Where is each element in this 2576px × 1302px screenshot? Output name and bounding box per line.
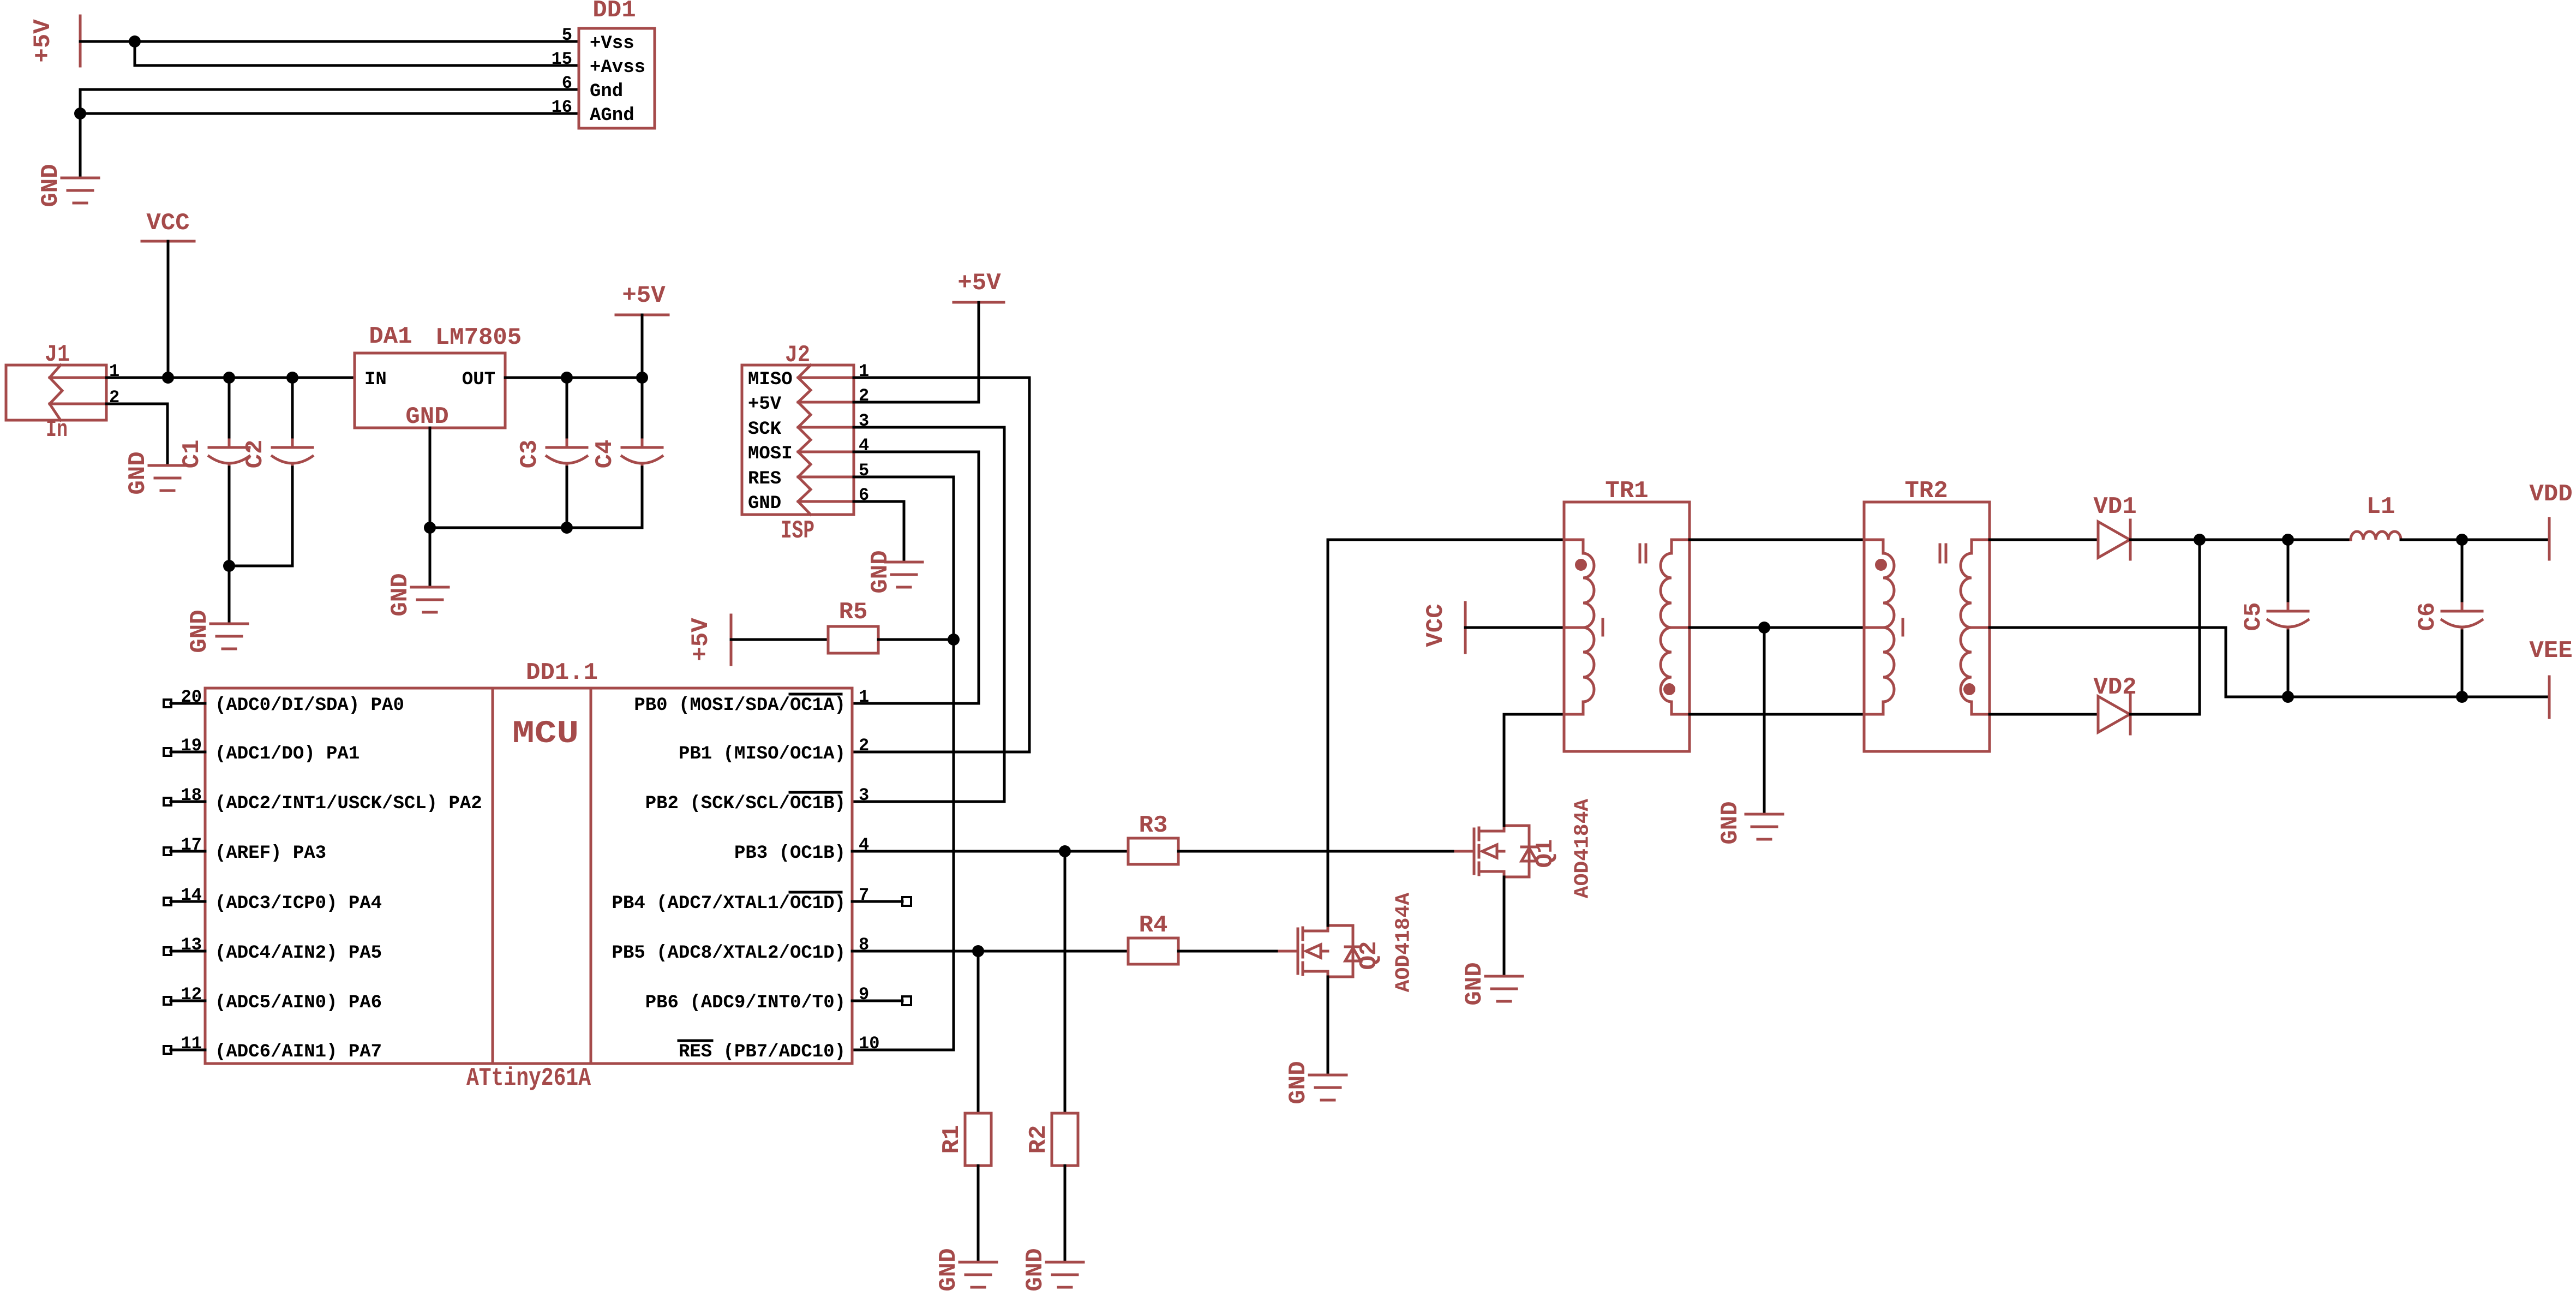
svg-text:R5: R5 — [839, 599, 868, 626]
pin names right — [612, 694, 846, 1062]
svg-text:14: 14 — [181, 885, 202, 905]
svg-text:DA1: DA1 — [369, 323, 412, 350]
IC DD1 power block — [552, 0, 655, 128]
wire PB3 net — [852, 850, 1128, 853]
transformer TR1 — [1564, 477, 1690, 751]
svg-text:16: 16 — [552, 97, 572, 117]
node RES/R5 junction — [948, 634, 960, 646]
svg-text:Q1: Q1 — [1532, 839, 1559, 868]
wire C1 to ground — [228, 566, 231, 624]
resistor R3 — [1128, 812, 1178, 864]
ground GND (Q2) — [1285, 1061, 1346, 1104]
wire DA1 OUT row — [505, 377, 642, 379]
connector J2 ISP — [742, 342, 869, 545]
capacitor C2 — [242, 378, 313, 566]
wire Q2 drain up — [1328, 540, 1564, 925]
node DA1 gnd junction — [424, 522, 436, 534]
svg-text:GND: GND — [37, 164, 64, 207]
svg-text:+5V: +5V — [29, 19, 57, 63]
wire TR2 mid to VEE row — [1990, 628, 2549, 697]
wire DD1 pin 16 — [80, 112, 579, 115]
wire MOSI net — [852, 452, 979, 703]
power VCC (input) — [142, 210, 194, 241]
wire VCC stub — [167, 241, 170, 378]
node Gnd/AGnd junction — [74, 107, 86, 120]
svg-text:(ADC4/AIN2) PA5: (ADC4/AIN2) PA5 — [215, 943, 382, 964]
pin numbers right — [859, 687, 879, 1054]
svg-text:TR2: TR2 — [1904, 477, 1948, 505]
svg-text:J2: J2 — [785, 342, 810, 369]
svg-text:RES: RES — [748, 469, 781, 489]
wire L1 to VDD — [2401, 539, 2549, 541]
node C3 top junction — [561, 372, 573, 384]
svg-text:C6: C6 — [2414, 602, 2441, 631]
svg-text:GND: GND — [387, 573, 414, 616]
svg-text:17: 17 — [181, 835, 202, 855]
svg-text:(ADC0/DI/SDA) PA0: (ADC0/DI/SDA) PA0 — [215, 695, 404, 716]
node C6 top junction — [2456, 534, 2468, 546]
svg-text:MOSI: MOSI — [748, 444, 793, 464]
node C6 bottom junction — [2456, 691, 2468, 703]
svg-text:PB3 (OC1B): PB3 (OC1B) — [734, 843, 846, 864]
IC DD1.1 MCU ATtiny261A — [205, 659, 852, 1092]
inductor L1 — [2351, 493, 2401, 540]
wire R5 to RES net — [878, 638, 954, 641]
svg-text:GND: GND — [748, 493, 781, 514]
node C1 bottom junction — [223, 560, 235, 572]
svg-text:C2: C2 — [242, 440, 269, 469]
pin numbers left — [181, 687, 202, 1054]
svg-text:(ADC3/ICP0) PA4: (ADC3/ICP0) PA4 — [215, 893, 382, 914]
svg-text:(ADC5/AIN0) PA6: (ADC5/AIN0) PA6 — [215, 993, 382, 1013]
svg-text:RES (PB7/ADC10): RES (PB7/ADC10) — [679, 1042, 846, 1062]
wire mid to ground — [1763, 628, 1766, 814]
svg-text:J1: J1 — [45, 341, 70, 368]
pin PA1 stub — [164, 748, 205, 756]
node C5 top junction — [2282, 534, 2294, 546]
svg-text:VCC: VCC — [146, 210, 189, 237]
wire R1 top — [977, 951, 980, 1113]
svg-text:R4: R4 — [1139, 912, 1168, 939]
wire R1 bottom — [977, 1166, 980, 1262]
power +5V (DD1 supply) — [29, 16, 80, 66]
pin PA2 stub — [164, 798, 205, 805]
svg-text:PB0 (MOSI/SDA/OC1A): PB0 (MOSI/SDA/OC1A) — [634, 695, 846, 716]
wire DD1 pin 6 — [80, 89, 579, 178]
wire R3 to Q1 gate — [1178, 850, 1455, 853]
wire J2.6 to ground — [854, 501, 904, 562]
capacitor C1 — [178, 378, 249, 566]
wire Q1 source down — [1503, 877, 1506, 976]
resistor R5 — [828, 599, 878, 653]
svg-text:PB1 (MISO/OC1A): PB1 (MISO/OC1A) — [679, 744, 846, 765]
svg-text:19: 19 — [181, 736, 202, 756]
pin PB4 stub — [852, 897, 911, 906]
svg-text:GND: GND — [186, 610, 213, 653]
wire VD2 up — [2198, 540, 2201, 714]
svg-text:ATtiny261A: ATtiny261A — [466, 1064, 591, 1092]
svg-text:VEE: VEE — [2529, 637, 2572, 665]
power +5V (regulator output) — [616, 282, 668, 315]
node VCC junction — [162, 372, 174, 384]
wire MISO net — [852, 378, 1029, 752]
svg-text:PB2 (SCK/SCL/OC1B): PB2 (SCK/SCL/OC1B) — [645, 793, 846, 814]
svg-text:AOD4184A: AOD4184A — [1392, 893, 1416, 993]
svg-text:3: 3 — [859, 785, 869, 805]
svg-text:+Vss: +Vss — [590, 33, 634, 54]
ground GND (TR) — [1717, 801, 1783, 844]
pin PA7 stub — [164, 1046, 205, 1054]
wire RES net — [852, 477, 954, 1050]
svg-text:PB5 (ADC8/XTAL2/OC1D): PB5 (ADC8/XTAL2/OC1D) — [612, 943, 846, 964]
ground GND (J1) — [124, 451, 186, 494]
svg-text:GND: GND — [1285, 1061, 1312, 1104]
svg-text:6: 6 — [562, 73, 572, 93]
power +5V (R5 pullup) — [687, 615, 731, 665]
svg-text:In: In — [46, 416, 68, 444]
wire C1-C2 bottom — [229, 565, 292, 568]
wire DD1 pin 15 branch — [135, 41, 579, 65]
svg-text:R3: R3 — [1139, 812, 1168, 839]
wire +5V down — [641, 315, 644, 378]
transistor Q1 AOD4184A — [1455, 799, 1595, 899]
svg-text:VD2: VD2 — [2093, 674, 2136, 701]
wire VD1 to L1 — [2130, 539, 2351, 541]
svg-text:(ADC2/INT1/USCK/SCL) PA2: (ADC2/INT1/USCK/SCL) PA2 — [215, 793, 482, 814]
capacitor C5 — [2240, 540, 2308, 697]
svg-text:VCC: VCC — [1422, 604, 1449, 647]
svg-text:R2: R2 — [1025, 1125, 1052, 1154]
svg-text:C4: C4 — [591, 440, 619, 469]
svg-text:VD1: VD1 — [2093, 493, 2136, 521]
wire +5V to R5 — [731, 638, 828, 641]
terminal VEE — [2529, 637, 2572, 718]
svg-text:Gnd: Gnd — [590, 81, 623, 102]
svg-text:5: 5 — [562, 25, 572, 45]
svg-text:LM7805: LM7805 — [435, 324, 522, 351]
svg-text:+5V: +5V — [622, 282, 666, 309]
wire DA1 GND down — [429, 428, 432, 587]
svg-text:ISP: ISP — [781, 517, 814, 545]
svg-text:Q2: Q2 — [1356, 941, 1383, 970]
ground GND (DA1) — [387, 573, 448, 616]
capacitor C3 — [516, 378, 587, 528]
power +5V (ISP) — [954, 270, 1004, 302]
ground GND (R2) — [1022, 1248, 1083, 1291]
wire TR1 to TR2 bottom — [1690, 713, 1864, 716]
svg-text:DD1.1: DD1.1 — [526, 659, 598, 686]
wire GND row to C3 C4 — [430, 527, 642, 529]
terminal VDD — [2529, 481, 2572, 559]
svg-text:L1: L1 — [2367, 493, 2395, 521]
svg-text:GND: GND — [405, 403, 448, 431]
wire VD2 to node — [2130, 713, 2200, 716]
svg-text:MCU: MCU — [512, 716, 579, 752]
node mid gnd junction — [1758, 622, 1770, 634]
diode VD2 — [2093, 674, 2136, 734]
svg-text:VDD: VDD — [2529, 481, 2572, 508]
svg-text:PB6 (ADC9/INT0/T0): PB6 (ADC9/INT0/T0) — [645, 993, 846, 1013]
ground GND (DD1) — [37, 164, 99, 207]
resistor R2 — [1025, 1113, 1078, 1166]
svg-text:OUT: OUT — [462, 369, 495, 390]
node PB3/R2 junction — [1059, 845, 1071, 857]
wire R4 to Q2 gate — [1178, 950, 1279, 953]
node PB5/R1 junction — [972, 945, 984, 957]
pin PA5 stub — [164, 947, 205, 955]
svg-text:C3: C3 — [516, 440, 543, 469]
pin PB6 stub — [852, 996, 911, 1005]
svg-text:GND: GND — [1461, 962, 1488, 1005]
svg-text:10: 10 — [859, 1034, 879, 1054]
svg-text:(ADC1/DO) PA1: (ADC1/DO) PA1 — [215, 744, 360, 765]
node C3 bottom junction — [561, 522, 573, 534]
wire SCK net — [852, 427, 1004, 802]
svg-text:1: 1 — [859, 687, 869, 707]
wire R2 bottom — [1064, 1166, 1067, 1262]
svg-text:20: 20 — [181, 687, 202, 707]
wire TR2 to VD2 — [1990, 713, 2098, 716]
ground GND (J2) — [867, 550, 922, 593]
svg-text:AOD4184A: AOD4184A — [1571, 799, 1595, 899]
svg-text:(ADC6/AIN1) PA7: (ADC6/AIN1) PA7 — [215, 1042, 382, 1062]
wire +5V to J2.2 — [854, 302, 979, 402]
svg-text:IN: IN — [364, 369, 387, 390]
wire VCC to TR1 — [1465, 626, 1564, 629]
svg-text:+5V: +5V — [957, 270, 1001, 297]
svg-text:AGnd: AGnd — [590, 105, 634, 126]
wire Q1 drain up — [1503, 714, 1506, 826]
pin PA3 stub — [164, 847, 205, 855]
svg-text:2: 2 — [859, 736, 869, 756]
wire PB5 net — [852, 950, 1128, 953]
wire +5V to DD1 pin 5 — [80, 40, 579, 43]
svg-text:GND: GND — [1717, 801, 1744, 844]
svg-text:PB4 (ADC7/XTAL1/OC1D): PB4 (ADC7/XTAL1/OC1D) — [612, 893, 846, 914]
svg-text:DD1: DD1 — [592, 0, 636, 24]
svg-text:(AREF) PA3: (AREF) PA3 — [215, 843, 326, 864]
ground GND (C1 C2) — [186, 610, 248, 653]
wire TR1 to TR2 top — [1690, 539, 1864, 541]
svg-text:11: 11 — [181, 1034, 202, 1054]
svg-text:C5: C5 — [2240, 602, 2267, 631]
wire TR2 to VD1 — [1990, 539, 2098, 541]
transformer TR2 — [1864, 477, 1990, 751]
pin PA6 stub — [164, 997, 205, 1005]
wire J1.2 to ground — [106, 404, 167, 465]
diode VD1 — [2093, 493, 2136, 559]
resistor R1 — [938, 1113, 991, 1166]
svg-text:18: 18 — [181, 785, 202, 805]
svg-text:C1: C1 — [178, 440, 206, 469]
connector J1 — [6, 341, 119, 444]
svg-text:GND: GND — [124, 451, 152, 494]
svg-text:15: 15 — [552, 49, 572, 69]
svg-text:GND: GND — [935, 1248, 962, 1291]
node C1 top junction — [223, 372, 235, 384]
wire TR1 bottom to Q1 — [1504, 713, 1564, 716]
wire Q2 source down — [1327, 977, 1329, 1075]
pin PA0 stub — [164, 700, 205, 707]
node C4 top junction — [636, 372, 648, 384]
pin names left — [215, 695, 482, 1062]
capacitor C6 — [2414, 540, 2482, 697]
pin PA4 stub — [164, 898, 205, 905]
svg-text:+5V: +5V — [687, 618, 715, 661]
svg-text:SCK: SCK — [748, 419, 782, 440]
svg-text:MISO: MISO — [748, 369, 793, 390]
ground GND (R1) — [935, 1248, 997, 1291]
transistor Q2 AOD4184A — [1279, 893, 1416, 993]
svg-text:12: 12 — [181, 984, 202, 1005]
power VCC (TR primary) — [1422, 602, 1465, 653]
svg-text:GND: GND — [1022, 1248, 1049, 1291]
svg-text:13: 13 — [181, 935, 202, 955]
node VD2 branch junction — [2194, 534, 2206, 546]
svg-text:R1: R1 — [938, 1125, 966, 1154]
node C2 top junction — [286, 372, 298, 384]
node C5 bottom junction — [2282, 691, 2294, 703]
ground GND (Q1) — [1461, 962, 1523, 1005]
node +5V/+Avss junction — [129, 35, 141, 47]
svg-text:+Avss: +Avss — [590, 57, 645, 78]
svg-text:+5V: +5V — [748, 394, 782, 415]
wire TR1 to TR2 mid — [1690, 626, 1864, 629]
wire J1.1 to DA1 IN — [106, 377, 355, 379]
resistor R4 — [1128, 912, 1178, 964]
svg-text:TR1: TR1 — [1605, 477, 1648, 505]
capacitor C4 — [591, 378, 662, 528]
svg-text:GND: GND — [867, 550, 894, 593]
regulator DA1 LM7805 — [355, 323, 522, 431]
wire R2 top — [1064, 851, 1067, 1113]
